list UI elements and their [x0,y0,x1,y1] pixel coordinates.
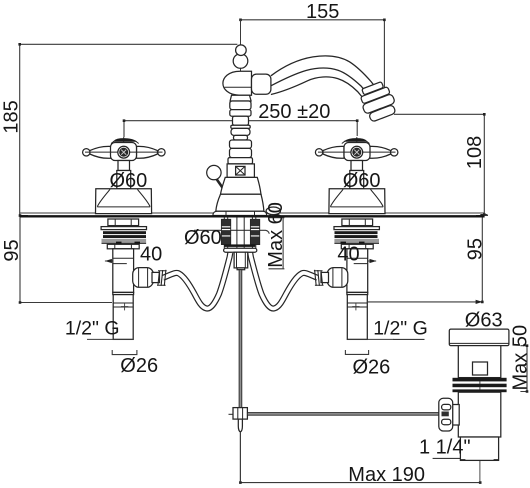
handle end ball left [83,149,90,156]
column flare ring [228,158,253,164]
clamp dark bar [224,244,255,247]
valve locknut grey band [102,239,147,244]
svg-text:95: 95 [1,239,23,261]
svg-text:250 ±20: 250 ±20 [258,101,330,123]
faucet centre line [240,20,242,216]
dimension 155 line [241,20,385,94]
svg-text:Ø63: Ø63 [465,310,503,332]
valve top nut [108,219,139,226]
valve cross ring [227,164,254,178]
base dome upper [221,177,262,194]
dimension 95 right line [368,216,488,302]
svg-text:Ø60: Ø60 [343,170,381,192]
pin extension line [239,432,241,483]
outlet stub [152,272,160,282]
valve locknut dark band B [103,235,146,238]
svg-text:Ø26: Ø26 [353,357,391,379]
dimension 108 line [394,114,488,216]
base dome lower [216,194,264,211]
valve centre cross mark [121,303,128,310]
valve tube collar [113,292,134,294]
valve tube section lines [113,258,134,263]
handle axis line [85,151,163,153]
dimension 95 left line [20,216,112,303]
handle base shelf line [97,206,150,208]
svg-text:Max 190: Max 190 [348,464,425,486]
spout body waist line [225,86,252,88]
valve locknut dark dots [116,242,140,244]
pop-up lever knob [207,165,221,179]
column ring 3 [230,110,251,117]
svg-text:Ø60: Ø60 [110,170,148,192]
diameter 60 centre leader [194,230,269,234]
handle cross bar left lobe [90,146,111,158]
svg-text:155: 155 [306,1,339,23]
drain tailpiece [460,437,498,460]
dimension 95 right end ticks [476,214,484,304]
dimension 40 right leader [348,260,377,262]
spout lower contour [271,77,369,105]
column shank under deck [237,218,244,249]
valve body tube [113,249,134,293]
svg-text:1 1/4": 1 1/4" [419,437,471,459]
clamp stadium plate [224,248,257,252]
drain overflow hole [473,362,488,375]
column ring 1 [230,95,251,101]
dimension 155 corner ticks [239,19,386,22]
handle top cap flare [111,141,139,144]
spout top ball [236,45,247,56]
rod clamp left stub [229,413,234,415]
column ring 6 [234,135,248,140]
handle hub outer circle [118,146,130,158]
handle top cap dark band [114,139,136,142]
hose collar corrugation [157,270,167,286]
drain locknut bars [453,378,507,382]
valve lower tube [113,295,133,340]
dimension 1 1/4 leader [433,457,473,459]
dimension 95 left end ticks [19,214,22,304]
dimension 40 left leader [105,260,133,262]
base skirt [213,211,267,215]
rod clamp block [233,408,247,420]
handle cross bar right lobe [137,146,158,158]
pop-up lever stem [217,179,225,191]
handle stem lower [117,171,131,189]
spout body [223,71,252,95]
spout body ball 2 [233,54,248,69]
column ring 2 [230,101,251,110]
rod dark tip [442,412,449,417]
drain flange [449,329,509,346]
clamp pin [238,419,242,432]
handle end ball right [158,149,165,156]
mounting stud left [224,217,227,249]
handle centre line [123,137,125,213]
valve locknut dark band A [103,231,146,234]
svg-text:40: 40 [140,244,162,266]
svg-text:Max 50: Max 50 [509,325,530,391]
svg-text:Ø26: Ø26 [120,355,158,377]
svg-text:1/2" G: 1/2" G [373,318,428,340]
svg-text:1/2" G: 1/2" G [65,318,120,340]
column ring 5 [231,128,250,135]
svg-text:Max 60: Max 60 [265,202,287,268]
valve thread start lines [113,303,133,307]
column ring 8 [230,148,252,157]
drain knob on deck [266,207,280,215]
hose left [163,253,230,309]
dimension Max 190 line [240,432,480,483]
aerator [357,80,399,124]
dimension diameter 26 left bracket [112,350,137,355]
rod serrated nut [439,398,453,431]
dimension Max 60 bracket [269,218,285,269]
dimension Max 50 bracket [520,346,527,392]
handle base [96,189,152,214]
dimension 185 corner tick [18,43,21,46]
handle base cone sides [97,189,150,206]
spout upper contour [271,56,384,98]
svg-text:185: 185 [1,100,23,133]
deck thick line [20,215,485,217]
rod serrated nut collar [453,405,460,426]
svg-text:108: 108 [464,136,486,169]
dimension 185 line [20,44,238,216]
tailpiece bottom ticks [460,459,498,461]
centre inlet block [234,252,248,268]
handle hub inner circle [120,148,128,156]
base skirt ticks [226,211,255,215]
1/2 G right leader extension [393,338,425,340]
dimension Max 190 corner ticks [239,481,481,484]
column ring 7 [230,140,252,148]
drain centre line [479,329,481,483]
drain lower body [458,392,501,437]
svg-text:40: 40 [337,244,359,266]
horizontal rod to drain [247,413,444,416]
cross ring X mark [236,166,245,175]
cross ring inner square [236,166,245,175]
handle centre block [111,143,137,161]
column neck [233,116,249,125]
dimension 250 corner ticks [123,119,359,122]
drain upper body [458,346,501,378]
deck top line [20,212,485,214]
dimension diameter 26 right bracket [345,350,368,354]
dimension 250 +-20 line [124,121,357,137]
centre block foot [237,268,245,270]
pop-up rod [239,270,242,408]
spout middle contour [271,68,376,103]
right side unit (mirrored) [250,137,398,339]
1/2 G leader left [87,338,133,340]
valve bottom nut [107,244,139,249]
mounting stud right [252,217,255,249]
valve flange plate [101,227,146,230]
column ring 4 [231,125,250,128]
svg-text:95: 95 [464,238,486,260]
spout collar [252,74,271,94]
outlet hex nut [133,268,154,288]
svg-text:Ø60: Ø60 [184,227,222,249]
dimension 108 end ticks [483,113,486,216]
handle stem [118,161,130,171]
